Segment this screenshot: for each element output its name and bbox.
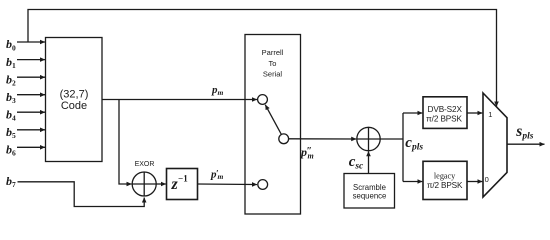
svg-text:b7: b7 xyxy=(6,174,16,189)
switch arm xyxy=(265,105,281,135)
svg-text:pm: pm xyxy=(211,84,224,97)
svg-text:b0: b0 xyxy=(6,37,16,52)
wire b3 xyxy=(17,94,45,96)
mux M1 xyxy=(483,93,507,197)
wire b2 xyxy=(17,76,45,78)
svg-text:EXOR: EXOR xyxy=(135,161,155,168)
svg-text:(32,7): (32,7) xyxy=(60,89,89,101)
EXOR adder X1 xyxy=(132,172,156,196)
svg-text:b4: b4 xyxy=(6,107,16,122)
wire DVB-S2X to mux input 1 xyxy=(467,112,482,114)
svg-text:b2: b2 xyxy=(6,72,16,87)
wire b1 xyxy=(17,59,45,61)
svg-text:b6: b6 xyxy=(6,143,16,158)
wire select line from b0 tap to mux xyxy=(28,10,497,107)
block legacy pi/2 BPSK xyxy=(423,161,467,199)
svg-text:Code: Code xyxy=(61,100,87,112)
wire legacy to mux input 0 xyxy=(467,181,482,183)
block DVB-S2X pi/2 BPSK xyxy=(423,97,467,129)
wire branch to DVB-S2X xyxy=(403,112,422,114)
svg-text:1: 1 xyxy=(488,110,492,119)
wire b7 xyxy=(18,182,145,207)
wire b4 xyxy=(17,111,45,113)
svg-text:Serial: Serial xyxy=(263,70,283,79)
wire p_m xyxy=(102,99,257,101)
svg-text:π/2 BPSK: π/2 BPSK xyxy=(426,114,462,123)
svg-text:legacy: legacy xyxy=(434,172,456,181)
svg-text:b3: b3 xyxy=(6,90,16,105)
wire p'_m xyxy=(198,183,258,186)
switch contact top (p_m input) xyxy=(258,95,268,105)
svg-text:p″m: p″m xyxy=(300,145,314,161)
wire b6 xyxy=(17,146,45,148)
svg-text:spls: spls xyxy=(515,123,533,142)
svg-text:sequence: sequence xyxy=(353,192,387,201)
delay block z^-1 xyxy=(167,169,198,200)
svg-text:π/2 BPSK: π/2 BPSK xyxy=(427,181,463,190)
wire c_pls with branch xyxy=(380,113,403,182)
svg-text:Parrell: Parrell xyxy=(262,48,284,57)
switch contact bottom (p'_m input) xyxy=(258,180,268,190)
wire s_pls output xyxy=(507,143,545,145)
wire p''_m xyxy=(289,138,357,140)
svg-text:csc: csc xyxy=(349,154,364,172)
svg-text:z−1: z−1 xyxy=(171,174,189,193)
scrambler adder X2 xyxy=(357,127,380,150)
block U1 (32,7) Code xyxy=(46,38,103,162)
switch contact middle (output) xyxy=(279,134,289,144)
svg-text:cpls: cpls xyxy=(405,135,423,153)
block Parallel-to-Serial xyxy=(245,35,301,215)
wire tap junction to EXOR xyxy=(119,100,132,185)
svg-text:b1: b1 xyxy=(6,55,16,70)
wire branch to legacy xyxy=(403,181,422,183)
svg-text:p′m: p′m xyxy=(210,168,224,181)
wire c_sc from scramble sequence box xyxy=(368,151,370,173)
wire b5 xyxy=(17,129,45,131)
block Scramble sequence xyxy=(344,174,395,209)
svg-text:DVB-S2X: DVB-S2X xyxy=(428,105,463,114)
svg-text:To: To xyxy=(269,59,277,68)
wire b0 xyxy=(17,41,45,43)
wire EXOR to z-1 xyxy=(156,183,166,185)
svg-text:0: 0 xyxy=(485,175,489,184)
svg-text:b5: b5 xyxy=(6,125,16,140)
